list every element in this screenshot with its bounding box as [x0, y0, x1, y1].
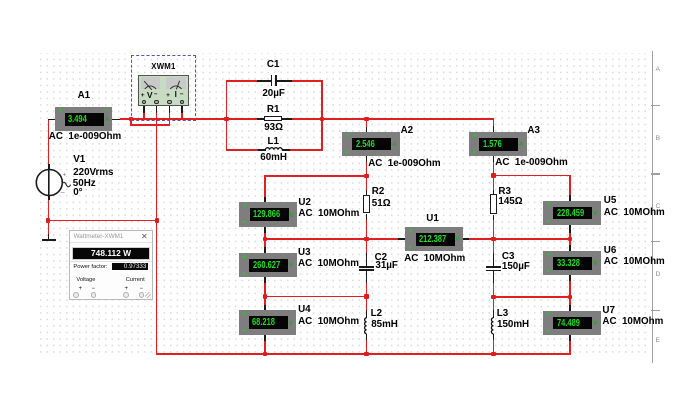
wire — [48, 220, 158, 222]
junction — [364, 352, 369, 357]
wire — [366, 271, 368, 284]
label V1 freq — [73, 179, 96, 189]
junction — [224, 117, 229, 122]
wire — [569, 335, 571, 354]
wire — [169, 112, 171, 125]
wire — [181, 106, 183, 113]
zone letter A — [656, 67, 661, 74]
ammeter A1 — [55, 107, 113, 131]
wire — [156, 112, 158, 354]
sheet frame tick — [651, 173, 660, 174]
label R1 — [243, 105, 303, 115]
capacitor C1 — [271, 75, 273, 86]
junction — [46, 218, 51, 223]
label L1 — [243, 137, 303, 147]
wire — [366, 297, 368, 310]
junction — [364, 294, 369, 299]
junction — [364, 117, 369, 122]
resistor R1 — [264, 116, 282, 122]
capacitor C2 — [359, 266, 374, 268]
wire — [366, 156, 368, 162]
wire — [493, 190, 495, 194]
junction — [263, 237, 268, 242]
voltmeter U2 — [239, 202, 297, 226]
sheet frame tick — [651, 105, 660, 106]
label R3 — [498, 187, 511, 197]
wire — [493, 296, 570, 298]
capacitor C3 — [486, 266, 500, 268]
wire — [569, 245, 571, 251]
wire — [569, 275, 571, 281]
XWM1 terminal — [142, 100, 146, 104]
sheet frame border line — [652, 51, 653, 363]
wire — [282, 149, 290, 151]
wire — [112, 119, 120, 121]
zone letter D — [656, 272, 661, 279]
label C2 — [375, 253, 388, 263]
label R2 value — [372, 199, 391, 209]
wire — [569, 297, 571, 305]
wire — [226, 80, 257, 82]
wire — [264, 232, 266, 239]
wire — [264, 227, 266, 233]
source V1 — [36, 170, 70, 196]
junction — [491, 352, 496, 357]
wire — [493, 339, 495, 354]
label L2 — [371, 309, 382, 319]
wire — [398, 238, 406, 240]
resistor R2 — [363, 195, 370, 213]
ammeter A3 — [469, 132, 527, 156]
wire — [569, 275, 571, 297]
wire — [258, 149, 266, 151]
wire — [322, 118, 494, 120]
ground — [48, 234, 50, 240]
wattmeter XWM1 dashed selection box — [131, 55, 196, 121]
label V1 phase — [73, 188, 82, 198]
wire — [493, 119, 495, 126]
label C2 value — [375, 261, 398, 271]
wire — [169, 106, 171, 113]
wire — [366, 176, 368, 190]
XWM1 terminal — [167, 100, 171, 104]
wire — [366, 127, 368, 132]
wire — [493, 271, 495, 283]
wire — [493, 156, 495, 161]
wire — [48, 221, 50, 234]
XWM1 terminal — [154, 100, 158, 104]
wire — [366, 220, 368, 239]
wire — [264, 247, 266, 253]
wire — [493, 220, 495, 240]
junction — [155, 218, 160, 223]
wire — [493, 283, 495, 297]
junction — [129, 117, 134, 122]
wire — [48, 164, 50, 201]
wire — [264, 297, 266, 305]
wire — [264, 305, 266, 311]
wire — [321, 80, 323, 151]
label C1 value — [244, 89, 304, 99]
wire — [264, 176, 266, 197]
wire — [292, 80, 322, 82]
wire — [143, 106, 145, 113]
wire — [282, 118, 292, 120]
wire — [366, 253, 368, 266]
junction — [364, 174, 369, 179]
wire — [493, 126, 495, 132]
wire — [569, 175, 571, 195]
wire — [264, 277, 266, 283]
wire — [48, 119, 55, 121]
wire — [493, 334, 495, 340]
wire — [366, 310, 368, 318]
wire — [493, 175, 495, 190]
wire — [366, 283, 368, 297]
zone letter C — [656, 204, 661, 211]
zone letter E — [656, 338, 661, 345]
label R3 value — [498, 197, 522, 207]
XWM1 terminal — [180, 100, 184, 104]
wattmeter XWM1 readout panel — [69, 230, 153, 301]
junction — [263, 352, 268, 357]
voltmeter U7 — [543, 311, 601, 335]
wire — [264, 341, 266, 355]
wire — [461, 238, 469, 240]
label L3 — [497, 309, 508, 319]
wire — [265, 296, 367, 298]
junction — [568, 295, 573, 300]
inductor L2 — [365, 318, 367, 334]
wire — [264, 239, 266, 247]
wire — [493, 310, 495, 318]
label R1 value — [244, 123, 304, 133]
label C3 — [502, 252, 515, 262]
wire — [143, 112, 145, 120]
wire — [181, 112, 183, 120]
wattmeter XWM1 body — [138, 75, 189, 106]
wire — [290, 149, 322, 151]
wire — [257, 118, 264, 120]
wire — [156, 106, 158, 113]
junction — [364, 237, 369, 242]
label L2 value — [371, 320, 398, 330]
wire — [366, 119, 368, 127]
wire — [257, 80, 271, 82]
wire — [366, 190, 368, 196]
junction — [263, 294, 268, 299]
wire — [264, 175, 366, 177]
wire — [264, 335, 266, 341]
wattmeter XWM1 label — [151, 63, 175, 71]
wire — [292, 118, 322, 120]
wire — [366, 162, 368, 176]
label C1 — [243, 60, 303, 70]
sheet grid — [37, 53, 651, 357]
wire — [130, 124, 170, 126]
voltmeter U6 — [543, 251, 601, 275]
wire — [226, 118, 257, 120]
inductor L1 — [265, 148, 282, 150]
wire — [493, 215, 495, 220]
wire — [226, 149, 258, 151]
ammeter A2 — [342, 132, 400, 156]
label V1 voltage — [73, 168, 113, 178]
wire — [493, 156, 495, 175]
wire — [130, 119, 132, 125]
wire — [469, 238, 570, 240]
junction — [491, 295, 496, 300]
wire — [569, 305, 571, 311]
resistor R3 — [490, 194, 497, 214]
wire — [264, 197, 266, 203]
wire — [569, 195, 571, 201]
label C3 value — [502, 262, 530, 272]
wire — [493, 239, 495, 253]
wire — [493, 253, 495, 266]
label L1 value — [244, 153, 304, 163]
voltmeter U3 — [239, 253, 297, 277]
wire — [277, 80, 293, 82]
wire — [366, 334, 368, 340]
label R2 — [372, 187, 385, 197]
wire — [366, 339, 368, 354]
wire — [264, 283, 266, 296]
sheet frame tick — [651, 310, 660, 311]
wire — [493, 297, 495, 310]
junction — [320, 117, 325, 122]
voltmeter U1 — [405, 227, 463, 251]
junction — [491, 237, 496, 242]
wire — [48, 200, 50, 221]
wire — [569, 225, 571, 233]
wire — [569, 225, 571, 240]
wire — [48, 119, 50, 164]
voltmeter U5 — [543, 201, 601, 225]
wire — [366, 214, 368, 221]
wire — [120, 118, 227, 120]
wire — [569, 239, 571, 245]
voltmeter U4 — [239, 310, 297, 334]
wire — [226, 80, 228, 151]
wire — [366, 239, 368, 253]
sheet frame tick — [651, 241, 660, 242]
label V1 — [73, 155, 85, 165]
label L3 value — [497, 320, 529, 330]
junction — [491, 173, 496, 178]
wire — [265, 238, 398, 240]
wire — [493, 175, 571, 177]
zone letter B — [656, 136, 661, 143]
inductor L3 — [491, 318, 493, 334]
wire — [569, 335, 571, 341]
wire — [156, 353, 571, 355]
junction — [568, 237, 573, 242]
